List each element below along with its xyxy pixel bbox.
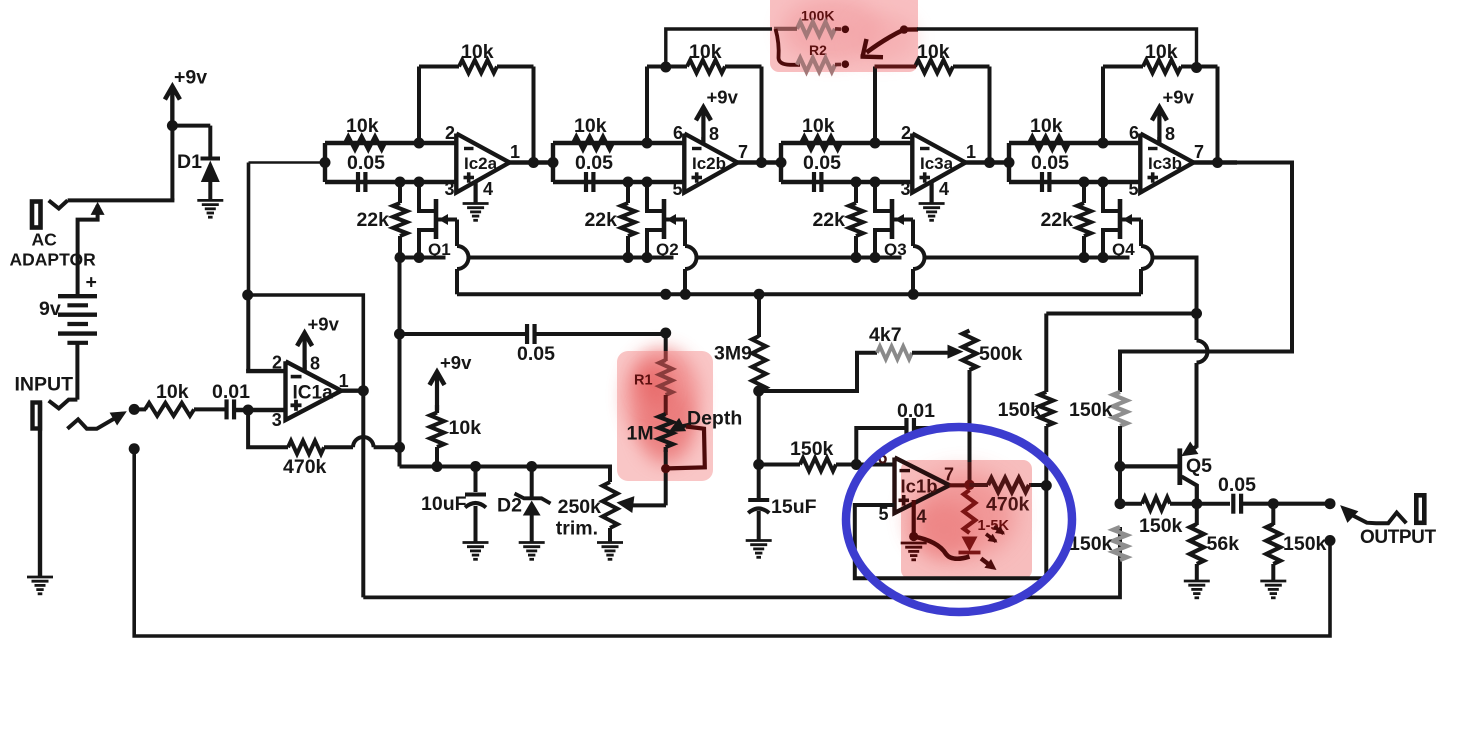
wire 150k collector	[1120, 502, 1197, 506]
wire gate Q3 down	[913, 220, 925, 295]
node 22k bottom stage1	[395, 252, 406, 263]
ground under D1	[197, 200, 223, 217]
resistor 3M9	[752, 336, 766, 391]
node 10uF junction	[470, 461, 481, 472]
label 500k	[979, 343, 1023, 365]
wire stage1 output	[510, 160, 554, 164]
svg-text:D2: D2	[497, 495, 522, 517]
svg-text:10k: 10k	[346, 115, 379, 137]
svg-text:22k: 22k	[812, 209, 845, 231]
wire 150k to base node	[1118, 426, 1122, 504]
label Q1	[428, 240, 451, 259]
label 150k output	[1283, 533, 1327, 555]
wire D2 stub	[530, 467, 534, 498]
svg-text:trim.: trim.	[556, 518, 598, 540]
svg-text:470k: 470k	[986, 494, 1030, 516]
wire gate Q2 down	[685, 220, 697, 295]
wire 10uF stub	[474, 467, 478, 493]
label 4k7	[869, 324, 902, 346]
wire long vertical IC1a input tap	[247, 163, 251, 372]
svg-text:250k: 250k	[558, 496, 602, 518]
node jfet source bus stage1	[414, 252, 425, 263]
svg-text:10k: 10k	[461, 41, 494, 63]
resistor 10k input stage1	[345, 137, 385, 150]
capacitor 10uF	[465, 495, 486, 508]
svg-text:150k: 150k	[998, 399, 1042, 421]
transistor Q5	[1180, 442, 1199, 504]
resistor 150k lfo	[800, 458, 836, 471]
svg-text:100K: 100K	[801, 8, 834, 24]
label 1M	[627, 423, 654, 445]
svg-text:7: 7	[1194, 142, 1204, 162]
node stage4 feedback-left	[1098, 138, 1109, 149]
wire stage4 input fork	[1007, 143, 1011, 182]
wire 150k mid vertical	[1046, 314, 1196, 486]
resistor 10k feedback stage2	[687, 60, 725, 73]
svg-text:+9v: +9v	[174, 67, 207, 89]
ground under input jack	[27, 577, 53, 594]
node Q5 collector	[1191, 498, 1202, 509]
capacitor 0.05 output	[1233, 494, 1241, 514]
diode D2 zener	[515, 494, 551, 543]
label 10k feedback stage3	[917, 41, 950, 63]
label 150k collector	[1139, 515, 1183, 537]
svg-text:7: 7	[738, 142, 748, 162]
svg-text:10k: 10k	[802, 115, 835, 137]
resistor 150k output	[1266, 524, 1280, 564]
svg-text:3: 3	[445, 179, 455, 199]
wire input to 10k	[134, 407, 146, 411]
capacitor 0.01 input	[227, 399, 235, 419]
svg-text:OUTPUT: OUTPUT	[1360, 527, 1437, 548]
resistor 22k stage3	[849, 203, 863, 236]
resistor 150k upper faded	[1113, 392, 1127, 426]
svg-text:10k: 10k	[1145, 41, 1178, 63]
node 22k bottom stage2	[623, 252, 634, 263]
label 10k input stage4	[1030, 115, 1063, 137]
wire 0.05 to output node	[1241, 502, 1330, 506]
ground under 250k trim	[597, 543, 623, 560]
wire 0.01 to IC1a pin3	[234, 408, 286, 412]
label Q4	[1112, 240, 1135, 259]
node vref at 0.05 wire	[394, 329, 405, 340]
wire stage4 pin3 line	[1009, 180, 1140, 184]
node ic1b pin4 dot	[909, 532, 918, 541]
svg-text:+9v: +9v	[707, 87, 739, 108]
wire vref to 15uF node	[757, 391, 761, 499]
node stage3 input	[776, 157, 787, 168]
op-amp Ic2a	[445, 123, 521, 199]
resistor 10k bias	[430, 413, 444, 448]
wire ic1b pin5 box	[855, 486, 1047, 579]
wire IC1a output	[341, 389, 364, 393]
svg-text:3M9: 3M9	[714, 343, 752, 365]
svg-text:0.01: 0.01	[897, 400, 935, 422]
label +9v IC1a	[308, 314, 340, 335]
svg-text:470k: 470k	[283, 456, 327, 478]
svg-text:Ic1b: Ic1b	[901, 476, 938, 497]
resistor 10k input	[145, 403, 194, 416]
node output jack pole A	[1325, 498, 1336, 509]
capacitor 0.05 stage1	[358, 172, 365, 192]
label R1	[634, 373, 653, 389]
svg-text:1: 1	[966, 142, 976, 162]
node output divider	[1268, 498, 1279, 509]
label 150k mid	[998, 399, 1042, 421]
label 0.05 lfo	[517, 343, 555, 365]
node jfet source bus stage4	[1098, 252, 1109, 263]
svg-text:10uF: 10uF	[421, 493, 467, 515]
resistor 470k lfo	[988, 478, 1029, 492]
wire feedback top stage4	[1103, 65, 1218, 69]
label 10k input	[156, 381, 189, 403]
wire hop over IC1a output	[353, 437, 374, 447]
label pin4 stage3	[939, 179, 949, 199]
wire +9v rail down to DC jack switch	[170, 126, 174, 201]
resistor 10k input stage4	[1029, 137, 1069, 150]
node input switch pole A	[129, 404, 140, 415]
svg-text:22k: 22k	[584, 209, 617, 231]
capacitor 0.05 lfo coupling	[527, 324, 535, 344]
ground stage1	[463, 204, 489, 221]
label 470k lfo	[986, 494, 1030, 516]
wire pin4 ground stub stage3	[929, 183, 933, 204]
resistor R2 mod	[797, 58, 841, 72]
svg-text:10k: 10k	[917, 41, 950, 63]
annotation blue circle around Ic1b LED	[846, 427, 1072, 612]
node gate bus x666	[660, 289, 671, 300]
label 3M9	[714, 343, 752, 365]
node gate bus Q3	[908, 289, 919, 300]
svg-text:4k7: 4k7	[869, 324, 902, 346]
svg-text:6: 6	[673, 123, 683, 143]
node IC1a pin3	[243, 405, 254, 416]
node 470k right junction lfo	[1041, 480, 1052, 491]
potentiometer 1M depth	[659, 414, 673, 452]
svg-text:D1: D1	[177, 151, 202, 173]
svg-text:22k: 22k	[356, 209, 389, 231]
svg-text:8: 8	[1165, 124, 1175, 144]
node stage4 input	[1004, 157, 1015, 168]
resistor 150k mid	[1039, 392, 1053, 426]
svg-text:150k: 150k	[1069, 533, 1113, 555]
label Q5	[1186, 455, 1212, 477]
wire feedback left stage2	[645, 67, 649, 144]
resistor R1 mod	[659, 333, 672, 415]
wire gate Q4 down	[1141, 220, 1153, 295]
wire Ic3b output feed	[1120, 163, 1292, 393]
node jfet source bus stage2	[642, 252, 653, 263]
label battery plus	[86, 272, 97, 294]
red highlight blob around Ic1b LED mod	[901, 460, 1032, 579]
wire stage2 input fork	[551, 143, 555, 182]
op-amp Ic3a	[901, 123, 977, 199]
svg-text:150k: 150k	[1139, 515, 1183, 537]
wire 150k out stub	[1271, 504, 1275, 525]
node stage2 22k tap	[623, 177, 634, 188]
label 22k stage3	[812, 209, 845, 231]
wire 150k lower faded	[1118, 527, 1122, 560]
AC adaptor jack	[32, 202, 41, 228]
resistor 500k speed pot	[963, 331, 977, 371]
wire 470k lfo	[970, 483, 1047, 487]
label 0.01 input	[212, 381, 250, 403]
node 22k bottom stage3	[851, 252, 862, 263]
wire stage3 output	[966, 160, 1010, 164]
node output jack pole B	[1325, 535, 1336, 546]
node ic1b pin7	[964, 480, 974, 490]
wire 500k bottom to pin7	[968, 370, 972, 484]
annotation arrow cut here	[861, 30, 905, 58]
node stage3 22k tap	[851, 177, 862, 188]
svg-text:0.05: 0.05	[1218, 474, 1256, 496]
resistor 10k input stage3	[801, 137, 841, 150]
label R2 mod	[809, 42, 827, 58]
wire 10k to 0.01	[194, 407, 227, 411]
wire stage3 feedback tinted under blob	[875, 65, 917, 69]
wire feedback right stage2	[760, 67, 764, 163]
wire stage1 pin2 line	[325, 141, 456, 145]
node gate bus Q2	[680, 289, 691, 300]
svg-text:4: 4	[939, 179, 949, 199]
node 10k bias junction	[432, 461, 443, 472]
capacitor 0.05 stage3	[814, 172, 821, 192]
label 0.05 stage2	[575, 152, 613, 174]
label 100K mod	[801, 8, 834, 24]
wire R2 reroute	[776, 29, 801, 65]
wire pin4 ground stub stage1	[474, 183, 478, 204]
svg-text:56k: 56k	[1207, 533, 1240, 555]
wire stage4 pin2 line	[1009, 141, 1140, 145]
label 9v battery	[39, 298, 61, 320]
svg-text:IC1a: IC1a	[293, 382, 334, 403]
wire feedback left stage1	[417, 67, 421, 144]
+9v arrow bias	[430, 372, 445, 413]
transistor Q4	[1103, 182, 1141, 258]
wire feedback right stage1	[532, 67, 536, 163]
wire feedback left stage4	[1101, 67, 1105, 144]
input switch arrow	[67, 411, 126, 428]
wire stage2 pin2 line	[553, 141, 684, 145]
wire 56k stub	[1195, 504, 1199, 525]
wire DC jack switch horizontal	[68, 198, 175, 202]
wire feedback left stage3	[873, 67, 877, 144]
label 250k	[558, 496, 602, 518]
wire 22k stage4	[1082, 182, 1086, 258]
svg-text:0.01: 0.01	[212, 381, 250, 403]
+9v arrow IC1a	[297, 333, 312, 371]
node lfo rc junction	[753, 459, 764, 470]
wire bias bus lower	[400, 467, 611, 483]
label trim	[556, 518, 598, 540]
label 0.05 stage4	[1031, 152, 1069, 174]
op-amp Ic1b	[878, 448, 955, 527]
svg-text:500k: 500k	[979, 343, 1023, 365]
svg-text:0.05: 0.05	[1031, 152, 1069, 174]
label Depth	[687, 408, 742, 430]
label pin4 stage1	[483, 179, 493, 199]
resistor 10k feedback stage1	[459, 60, 497, 73]
svg-text:8: 8	[709, 124, 719, 144]
wire 150k lfo input	[759, 463, 895, 467]
wire lfo feedback tap right	[904, 29, 1197, 68]
node R2 right terminal	[842, 60, 850, 68]
label 56k	[1207, 533, 1240, 555]
led arrows	[981, 526, 1005, 570]
svg-text:+9v: +9v	[1163, 87, 1195, 108]
op-amp Ic3b	[1129, 123, 1205, 199]
wire Q5 base	[1120, 464, 1178, 468]
wire stage2 output	[738, 160, 782, 164]
wire gate Q1 down	[457, 220, 469, 295]
wire IC1a pin2 loop	[248, 295, 363, 391]
wire led cathode jumper	[914, 537, 970, 559]
wire stage3 pin2 line	[781, 141, 912, 145]
wire depth wiper jumper	[668, 427, 705, 469]
+9v arrow (top left)	[165, 87, 180, 126]
diode D1 label	[177, 151, 202, 173]
svg-text:2: 2	[272, 353, 282, 373]
svg-text:+9v: +9v	[440, 352, 472, 373]
svg-text:10k: 10k	[574, 115, 607, 137]
wire 22k stage1	[398, 182, 402, 258]
node cut point dot	[900, 25, 908, 33]
transistor Q1	[419, 182, 457, 258]
wire source bus seg2	[469, 256, 674, 260]
node stage2 feedback-left	[642, 138, 653, 149]
node stage1 feedback-left	[414, 138, 425, 149]
ground stage3	[919, 204, 945, 221]
svg-text:0.05: 0.05	[517, 343, 555, 365]
svg-text:0.05: 0.05	[803, 152, 841, 174]
wiper arrow 250k	[617, 496, 667, 513]
label OUTPUT	[1360, 527, 1437, 548]
svg-text:1: 1	[339, 371, 349, 391]
label D2	[497, 495, 522, 517]
label 0.05 stage1	[347, 152, 385, 174]
label 470k IC1a	[283, 456, 327, 478]
red highlight blob around R1/1M Depth mod	[617, 348, 713, 481]
wire feedback top stage1	[419, 65, 534, 69]
resistor 10k feedback stage3	[915, 60, 953, 73]
label 150k lfo	[790, 438, 834, 460]
resistor 4k7	[877, 346, 912, 359]
node input switch pole B	[129, 443, 140, 454]
resistor 10k input stage2	[573, 137, 613, 150]
resistor 150k lower faded	[1113, 527, 1127, 560]
power label +9v (top left)	[174, 67, 207, 89]
wire lfo feedback tap left	[666, 29, 772, 67]
label 1-5K	[978, 518, 1010, 534]
wire +9v dot to D1	[170, 124, 210, 157]
power +9v arrow stage2	[696, 107, 711, 145]
wire 10uF to ground	[474, 506, 478, 543]
node 470k right junction	[394, 442, 405, 453]
svg-text:Ic2a: Ic2a	[464, 154, 498, 173]
svg-text:Q5: Q5	[1186, 455, 1212, 477]
wire stage3 pin3 line	[781, 180, 912, 184]
wire 22k stage3	[854, 182, 858, 258]
wire collector to 0.05	[1197, 502, 1230, 506]
node stage1 input	[320, 157, 331, 168]
wire 15uF ground stub	[757, 511, 761, 541]
svg-text:4: 4	[917, 507, 927, 527]
wire gate bus	[457, 292, 1141, 296]
node gate bus 3M9	[754, 289, 765, 300]
svg-text:ADAPTOR: ADAPTOR	[10, 250, 97, 270]
node stage4 22k tap	[1079, 177, 1090, 188]
node stage3 output junction	[984, 157, 995, 168]
AC adaptor jack switch contact	[49, 200, 68, 208]
wire 10k bias bottom	[435, 447, 439, 467]
wire emitter rail with hop	[1197, 314, 1208, 448]
label pin8 stage4	[1165, 124, 1175, 144]
output jack J2	[1416, 495, 1424, 523]
svg-text:+9v: +9v	[308, 314, 340, 335]
node D2 junction	[526, 461, 537, 472]
svg-text:+: +	[86, 272, 97, 294]
svg-text:R1: R1	[634, 373, 653, 389]
svg-text:150k: 150k	[1283, 533, 1327, 555]
svg-text:Ic2b: Ic2b	[692, 154, 726, 173]
svg-text:10k: 10k	[1030, 115, 1063, 137]
battery B1	[58, 296, 97, 343]
wiper arrow 1M	[669, 418, 692, 432]
transistor Q3	[875, 182, 913, 258]
wire vref vertical	[398, 258, 402, 467]
svg-text:1-5K: 1-5K	[978, 518, 1010, 534]
svg-text:22k: 22k	[1040, 209, 1073, 231]
wire depth pot bottom to 250k wiper	[664, 450, 668, 505]
wire 470k to hop	[324, 445, 353, 449]
resistor 22k stage4	[1077, 203, 1091, 236]
wire feedback top stage2	[647, 65, 762, 69]
node emitter rail junction	[1191, 308, 1202, 319]
node stage4 jfet drain tap	[1098, 177, 1109, 188]
op-amp Ic2b	[673, 123, 749, 199]
label 0.05 output	[1218, 474, 1256, 496]
power +9v arrow stage4	[1152, 107, 1167, 145]
wire source bias bus	[400, 256, 446, 260]
label 150k lower	[1069, 533, 1113, 555]
svg-text:0.05: 0.05	[347, 152, 385, 174]
label 10k feedback stage4	[1145, 41, 1178, 63]
label Q3	[884, 240, 907, 259]
svg-text:8: 8	[310, 353, 320, 373]
wire battery minus to input jack switch	[49, 343, 78, 409]
svg-text:1: 1	[510, 142, 520, 162]
node stage3 feedback-left	[870, 138, 881, 149]
label +9v stage2	[707, 87, 739, 108]
wire 3M9 to 4k7	[759, 353, 877, 391]
resistor 250k trim	[603, 482, 618, 528]
label 10k bias	[449, 417, 482, 439]
node IC1a loop junction	[242, 290, 253, 301]
label pin8 stage2	[709, 124, 719, 144]
node 22k bottom stage4	[1079, 252, 1090, 263]
label 150k upper	[1069, 399, 1113, 421]
wire IC1a output down to bottom line	[361, 391, 365, 598]
svg-text:5: 5	[1129, 179, 1139, 199]
label 15uF	[771, 496, 817, 518]
svg-text:6: 6	[1129, 123, 1139, 143]
capacitor 0.05 stage2	[586, 172, 593, 192]
wire stage3 input fork	[779, 143, 783, 182]
ground under 15uF	[746, 541, 772, 558]
capacitor 15uF	[748, 500, 769, 513]
label 22k stage4	[1040, 209, 1073, 231]
wire 0.01 feedback	[856, 428, 969, 465]
